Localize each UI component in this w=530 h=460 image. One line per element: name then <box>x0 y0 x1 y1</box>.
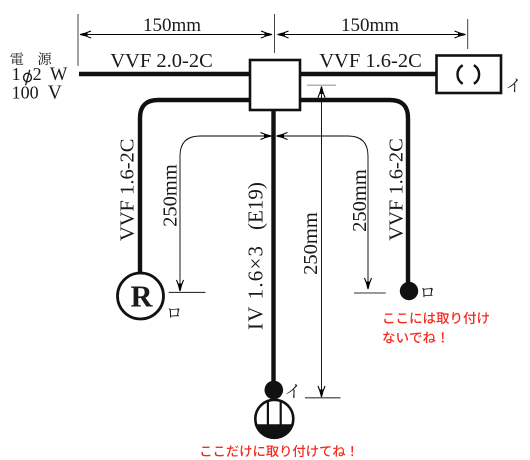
dimension 250mm center vertical <box>307 84 336 86</box>
label ro at right dot <box>422 288 433 298</box>
svg-text:1: 1 <box>12 64 21 84</box>
round hook ceiling slots <box>267 402 269 427</box>
round hook ceiling filled base <box>257 426 293 438</box>
dimension line 150mm left <box>80 34 272 36</box>
wire VVF2.0 source to junction box <box>79 72 252 76</box>
extension tick at source end <box>77 14 79 66</box>
svg-text:V: V <box>48 82 62 103</box>
svg-text:100: 100 <box>12 82 39 102</box>
label i at ceiling box <box>507 79 517 93</box>
svg-text:150mm: 150mm <box>143 15 201 36</box>
svg-text:150mm: 150mm <box>341 15 399 36</box>
junction dot i (attach here) <box>265 381 284 400</box>
dimension line 150mm right <box>278 34 466 36</box>
junction box <box>250 60 300 110</box>
dimension 250mm left (to lampholder) <box>180 136 272 291</box>
svg-text:(E19): (E19) <box>244 182 268 230</box>
wire junction box down-left to lampholder R <box>140 100 252 274</box>
svg-text:VVF 2.0-2C: VVF 2.0-2C <box>110 50 213 72</box>
phi symbol <box>24 73 32 82</box>
angular hook ceiling body <box>437 56 502 94</box>
extension tick above junction box <box>274 14 276 53</box>
svg-text:IV 1.6×3: IV 1.6×3 <box>244 245 268 330</box>
wire IV conduit junction box to lamp i <box>271 108 275 382</box>
warning text line2 <box>383 332 444 344</box>
svg-text:R: R <box>130 280 153 314</box>
round hook ceiling body <box>255 400 293 438</box>
svg-text:2: 2 <box>33 64 42 84</box>
label i at lamp <box>286 384 297 398</box>
label power source (dengen) <box>10 52 23 65</box>
svg-text:250mm: 250mm <box>160 164 182 227</box>
label IV 1.6x3 (E19) <box>244 182 268 330</box>
svg-text:250mm: 250mm <box>349 169 371 232</box>
hook ceiling symbol ( ) <box>457 65 462 84</box>
junction dot ro (do not attach here) <box>400 282 418 300</box>
instruction text (attach only here) <box>202 445 354 457</box>
wire junction box to ceiling rosette <box>298 72 437 76</box>
dimension 250mm right (to terminal ro) <box>277 136 369 289</box>
wire junction box down-right to terminal ro <box>298 100 408 283</box>
lampholder R circle <box>118 273 164 319</box>
svg-text:VVF 1.6-2C: VVF 1.6-2C <box>385 138 407 241</box>
svg-text:250mm: 250mm <box>300 212 322 275</box>
extension tick above ceiling box <box>467 19 469 49</box>
label ro at lampholder <box>169 308 180 318</box>
svg-text:VVF 1.6-2C: VVF 1.6-2C <box>117 139 139 242</box>
warning text line1 (do not attach here) <box>384 312 489 324</box>
svg-text:VVF 1.6-2C: VVF 1.6-2C <box>319 50 422 72</box>
